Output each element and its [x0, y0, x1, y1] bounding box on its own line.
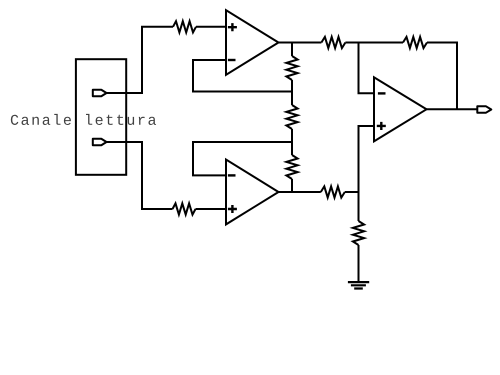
- wire bottom node to R9: [358, 192, 360, 221]
- wire U2 feedback (inverting input to gain node B): [193, 142, 292, 175]
- op-amp U1 (top buffer): [226, 10, 279, 75]
- wire gain chain bottom: [291, 179, 293, 192]
- op-amp U3 (difference amplifier): [374, 77, 427, 141]
- wire J1 to R1: [107, 27, 174, 93]
- resistor R9 (to ground): [353, 221, 364, 245]
- wire U2 output: [279, 191, 321, 193]
- wire R9 to ground: [358, 245, 360, 282]
- wire node B: [291, 129, 293, 155]
- resistor R6 (gain set): [286, 105, 297, 129]
- wire bottom node to U3 non-inverting input: [359, 126, 375, 192]
- op-amp U2 (bottom buffer): [226, 160, 279, 225]
- resistor R1: [173, 21, 196, 32]
- wire R3 to node, to R4: [345, 42, 403, 44]
- resistor R7 (gain chain bottom): [286, 155, 297, 179]
- wire R1 to U1 + input: [196, 26, 226, 28]
- wire R2 to U2 + input: [196, 208, 227, 210]
- ground: [348, 282, 369, 288]
- wire node A: [291, 80, 293, 105]
- pin J2 (bottom channel pin): [93, 139, 107, 146]
- box Canale lettura connector block: [76, 59, 126, 175]
- resistor R5 (gain chain top): [286, 56, 297, 80]
- wire node to U3 inverting input: [359, 43, 375, 94]
- resistor R4 (feedback of U3): [403, 37, 427, 48]
- label Canale lettura: [11, 114, 156, 125]
- wire U3 output: [427, 108, 478, 110]
- pin J3 (output pin): [477, 106, 491, 112]
- wire J2 to R2: [107, 142, 173, 209]
- resistor R3: [321, 37, 345, 48]
- wire U1 output: [279, 42, 322, 44]
- resistor R8: [321, 186, 345, 197]
- wire U1 feedback (inverting input to gain node A): [193, 60, 292, 92]
- wire R4 to output node: [427, 43, 457, 110]
- resistor R2: [173, 203, 196, 214]
- wire R8 to bottom node: [345, 191, 359, 193]
- pin J1 (top channel pin): [93, 90, 107, 97]
- wire gain chain top: [291, 43, 293, 57]
